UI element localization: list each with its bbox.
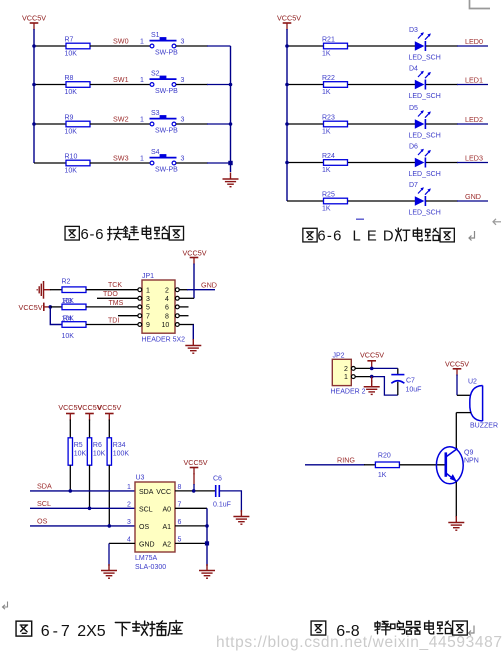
svg-text:1K: 1K	[322, 129, 331, 136]
svg-text:1K: 1K	[378, 472, 387, 479]
svg-text:SW-PB: SW-PB	[155, 49, 178, 56]
svg-text:TCK: TCK	[108, 282, 122, 289]
svg-text:R2: R2	[62, 279, 71, 286]
power port VCC5V (LEDs)	[277, 14, 301, 31]
svg-text:RING: RING	[337, 455, 355, 464]
wire R5 to SDA	[69, 465, 71, 491]
wire R23 to D5	[348, 123, 415, 125]
svg-text:10uF: 10uF	[406, 386, 422, 393]
resistor R5 10K (vertical)	[68, 438, 86, 465]
svg-text:7: 7	[146, 313, 150, 320]
ground (pin4 of U3)	[101, 564, 117, 578]
svg-text:R22: R22	[322, 75, 335, 82]
svg-text:VCC5V: VCC5V	[19, 303, 43, 312]
svg-text:HEADER 5X2: HEADER 5X2	[142, 337, 186, 344]
wire emitter to ground	[455, 482, 457, 517]
svg-text:BUZZER: BUZZER	[470, 423, 498, 430]
junction LED bus	[285, 83, 289, 87]
power port VCC5V (buzzer)	[445, 359, 469, 376]
pin 7 of JP1	[138, 313, 150, 320]
junction R5/SDA	[69, 489, 73, 493]
svg-text:LED0: LED0	[465, 37, 483, 46]
svg-text:4: 4	[127, 536, 131, 543]
wire GND pin4 to ground	[109, 542, 135, 544]
wire VCC pin8	[175, 490, 215, 492]
svg-text:U2: U2	[468, 379, 477, 386]
pin 8 of JP1	[165, 313, 179, 320]
wire pin4 to VCC bus	[179, 297, 194, 299]
svg-text:U3: U3	[136, 475, 145, 482]
wire VCC stub blue	[193, 484, 195, 491]
caption: fig 6-6 LED circuit	[303, 228, 454, 245]
wire bus to R25	[287, 200, 323, 202]
wire R34 to OS	[108, 465, 110, 526]
junction right bus	[229, 83, 233, 87]
wire D7 out	[426, 200, 458, 202]
wire VCC to buzzer top	[456, 375, 458, 396]
junction right bus bottom	[228, 161, 232, 165]
svg-text:3: 3	[181, 156, 185, 163]
svg-text:VCC5V: VCC5V	[97, 403, 121, 412]
svg-text:D5: D5	[409, 105, 418, 112]
svg-text:GND: GND	[465, 192, 481, 201]
wire RING	[305, 464, 365, 466]
svg-text:10K: 10K	[65, 89, 78, 96]
gray paragraph mark after caption 2	[469, 231, 475, 241]
svg-text:R20: R20	[378, 453, 391, 460]
junction VCC bus	[32, 122, 36, 126]
svg-text:6-6: 6-6	[81, 227, 104, 243]
svg-text:LED: LED	[353, 229, 394, 245]
capacitor C7 10uF	[391, 375, 421, 394]
wire bus to R23	[287, 123, 323, 125]
svg-text:R10: R10	[65, 153, 78, 160]
resistor R10 10K	[65, 153, 91, 174]
ground (left of R2)	[37, 281, 50, 299]
svg-text:S1: S1	[151, 32, 160, 39]
wire C7 bottom	[397, 382, 399, 395]
decorative blue dash above LED caption	[356, 218, 364, 220]
buzzer U2 body	[468, 379, 498, 430]
power port VCC5V (sideways)	[19, 303, 51, 312]
svg-text:1: 1	[127, 484, 131, 491]
svg-text:A1: A1	[162, 524, 171, 531]
svg-text:Q9: Q9	[464, 450, 473, 457]
svg-text:10K: 10K	[65, 51, 78, 58]
wire R8 to switch	[90, 84, 150, 86]
svg-text:1: 1	[140, 39, 144, 46]
junction A2	[205, 541, 209, 545]
switch S2 SW-PB	[150, 71, 179, 95]
wire A1	[175, 525, 207, 527]
wire pin8 stub	[179, 315, 188, 317]
resistor R25 1K	[322, 191, 348, 212]
ground (buttons)	[223, 173, 239, 187]
svg-text:OS: OS	[37, 517, 48, 526]
wire D5 out	[426, 123, 458, 125]
svg-text:6: 6	[165, 305, 169, 312]
wire R25 to D7	[348, 200, 415, 202]
power port VCC5V above R34	[97, 403, 121, 421]
svg-text:S2: S2	[151, 71, 160, 78]
connector JP1 HEADER 5X2 body	[142, 273, 186, 344]
caption: fig 6-6 button circuit	[65, 226, 183, 243]
junction right bus	[229, 122, 233, 126]
svg-text:SW0: SW0	[113, 37, 129, 46]
svg-text:NPN: NPN	[464, 458, 479, 465]
wire buzzer bottom to collector	[456, 412, 471, 414]
svg-text:3: 3	[127, 519, 131, 526]
wire TDO	[97, 297, 138, 299]
caption: fig 6-8 buzzer circuit	[311, 621, 467, 640]
wire pin10 to ground	[179, 324, 194, 326]
junction LED bus	[285, 122, 289, 126]
junction VCC/pin2	[370, 367, 374, 371]
svg-text:SDA: SDA	[139, 489, 154, 496]
transistor Q9 NPN	[436, 447, 478, 484]
pin 1 of JP2	[344, 374, 355, 381]
wire R10 to switch	[90, 162, 150, 164]
wire SW1 row left segment	[34, 84, 66, 86]
wire VCC node down to R4	[50, 307, 63, 325]
junction VCC bus	[32, 44, 36, 48]
svg-text:D3: D3	[409, 27, 418, 34]
wire D4 out	[426, 84, 458, 86]
wire R21 to D3	[348, 45, 415, 47]
svg-text:LED_SCH: LED_SCH	[409, 209, 441, 216]
svg-text:2: 2	[165, 287, 169, 294]
led D5 LED_SCH	[409, 105, 441, 139]
ground (A pins)	[199, 564, 215, 578]
pin 1 of JP1	[138, 287, 150, 294]
wire VCC to R5	[69, 420, 71, 439]
ground (below JP1)	[185, 339, 201, 353]
junction VCC5V node	[49, 305, 53, 309]
svg-text:TDO: TDO	[103, 291, 118, 298]
svg-text:6: 6	[178, 519, 182, 526]
svg-text:8: 8	[165, 313, 169, 320]
svg-text:LED_SCH: LED_SCH	[409, 132, 441, 139]
svg-text:JP2: JP2	[333, 352, 345, 359]
svg-text:1: 1	[140, 156, 144, 163]
svg-text:R5: R5	[74, 442, 83, 449]
svg-text:3: 3	[181, 39, 185, 46]
resistor R6 10K (vertical)	[87, 438, 105, 465]
pin 5 of JP1	[138, 305, 150, 312]
svg-text:R8: R8	[65, 75, 74, 82]
wire TMS	[86, 306, 138, 308]
svg-text:3: 3	[181, 117, 185, 124]
junction LED bus	[285, 161, 289, 165]
svg-text:3: 3	[181, 77, 185, 84]
svg-text:9: 9	[146, 322, 150, 329]
svg-text:R3: R3	[63, 298, 72, 305]
gray corner mark top right	[470, 0, 491, 9]
wire SW3 row left segment	[34, 162, 66, 164]
svg-text:R4: R4	[63, 315, 72, 322]
svg-text:SCL: SCL	[139, 507, 153, 514]
svg-text:8: 8	[178, 484, 182, 491]
pin 2 of JP1	[165, 287, 179, 294]
junction R6/SCL	[88, 507, 92, 511]
gray paragraph mark after caption 4	[469, 626, 475, 636]
wire switch S4 to right bus	[176, 162, 208, 164]
svg-text:VCC: VCC	[156, 489, 171, 496]
svg-text:LED_SCH: LED_SCH	[409, 93, 441, 100]
svg-text:R21: R21	[322, 36, 335, 43]
ground (Q9)	[448, 516, 464, 530]
wire bus to R21	[287, 45, 323, 47]
junction A1	[205, 524, 209, 528]
wire D6 out	[426, 162, 458, 164]
svg-text:https://blog.csdn.net/weixin_4: https://blog.csdn.net/weixin_44593487	[216, 634, 502, 651]
pin 3 of JP1	[138, 296, 150, 303]
svg-text:7: 7	[178, 501, 182, 508]
svg-text:3: 3	[146, 296, 150, 303]
svg-text:A0: A0	[162, 507, 171, 514]
resistor R34 100K (vertical)	[107, 438, 129, 465]
svg-text:6-6: 6-6	[317, 229, 341, 245]
wire TCK	[86, 289, 138, 291]
svg-text:1K: 1K	[322, 51, 331, 58]
junction VCC bus	[32, 83, 36, 87]
svg-text:100K: 100K	[113, 451, 130, 458]
junction VCC/C6	[192, 489, 196, 493]
resistor R3 10K	[62, 298, 86, 310]
svg-text:SW2: SW2	[113, 115, 129, 124]
wire SDA	[30, 490, 135, 492]
ic U3 LM75A body	[135, 475, 175, 571]
svg-text:SW-PB: SW-PB	[155, 88, 178, 95]
svg-text:10K: 10K	[93, 451, 106, 458]
wire R9 to switch	[90, 123, 150, 125]
wire ground to R2	[50, 289, 64, 291]
ground (JP2)	[364, 380, 380, 394]
wire R7 to switch	[90, 45, 150, 47]
wire switch S2 to right bus	[176, 84, 208, 86]
wire A2	[175, 542, 207, 544]
capacitor C6 0.1uF	[213, 476, 231, 509]
svg-text:D7: D7	[409, 182, 418, 189]
svg-text:1: 1	[140, 117, 144, 124]
wire pin7 stub	[118, 315, 138, 317]
svg-text:HEADER 2: HEADER 2	[331, 389, 366, 396]
led D3 LED_SCH	[409, 27, 441, 61]
svg-text:1: 1	[344, 374, 348, 381]
svg-text:GND: GND	[139, 542, 155, 549]
power port VCC5V (above JP1)	[183, 249, 207, 265]
svg-text:SLA-0300: SLA-0300	[135, 564, 166, 571]
switch S1 SW-PB	[150, 32, 179, 56]
wire bus to R24	[287, 162, 323, 164]
wire pin2 row	[355, 367, 372, 369]
power port VCC5V (buttons)	[22, 14, 46, 31]
wire: right bus to ground	[230, 46, 232, 163]
pin 4 of JP1	[165, 296, 179, 303]
wire: LED VCC bus	[286, 29, 288, 201]
svg-text:0.1uF: 0.1uF	[213, 502, 231, 509]
led D7 LED_SCH	[409, 182, 441, 216]
wire switch S3 to right bus	[176, 123, 208, 125]
resistor R20 1K	[375, 453, 399, 480]
svg-text:LED1: LED1	[465, 75, 483, 84]
resistor R21 1K	[322, 36, 348, 57]
svg-text:C6: C6	[213, 476, 222, 483]
svg-text:C7: C7	[406, 378, 415, 385]
svg-text:VCC5V: VCC5V	[22, 14, 46, 23]
wire VCC to R6	[89, 420, 91, 439]
svg-text:VCC5V: VCC5V	[445, 359, 469, 368]
svg-text:1: 1	[140, 77, 144, 84]
wire OS	[30, 525, 135, 527]
svg-text:2: 2	[127, 501, 131, 508]
svg-text:SDA: SDA	[37, 482, 52, 491]
svg-text:S3: S3	[151, 110, 160, 117]
svg-text:TDI: TDI	[108, 317, 119, 324]
wire switch S1 to right bus	[176, 45, 208, 47]
resistor R7 10K	[65, 36, 91, 57]
svg-text:A2: A2	[162, 542, 171, 549]
wire pin2 to GND net	[179, 289, 188, 291]
wire VCC to R34	[108, 420, 110, 439]
wire R24 to D6	[348, 162, 415, 164]
svg-text:5: 5	[146, 305, 150, 312]
resistor R9 10K	[65, 114, 91, 135]
gray wrap arrow right of LED caption	[493, 219, 501, 225]
svg-text:R9: R9	[65, 114, 74, 121]
wire C6 to ground	[219, 491, 241, 512]
led D4 LED_SCH	[409, 66, 441, 100]
svg-text:VCC5V: VCC5V	[360, 350, 384, 359]
junction VCC/pin1	[370, 375, 374, 379]
svg-text:VCC5V: VCC5V	[184, 458, 208, 467]
svg-text:1K: 1K	[322, 206, 331, 213]
wire pin6 stub	[179, 306, 188, 308]
wire R22 to D4	[348, 84, 415, 86]
power port VCC5V (U3)	[184, 458, 208, 485]
caption: fig 6-7 2X5 download socket	[16, 620, 182, 640]
svg-text:4: 4	[165, 296, 169, 303]
svg-text:R24: R24	[322, 153, 335, 160]
wire SW2 row left segment	[34, 123, 66, 125]
svg-text:10K: 10K	[62, 333, 75, 340]
resistor R22 1K	[322, 75, 348, 96]
svg-text:SW-PB: SW-PB	[155, 166, 178, 173]
pin 2 of JP2	[344, 366, 355, 373]
wire pin1 to ground	[371, 377, 373, 382]
svg-text:VCC5V: VCC5V	[277, 14, 301, 23]
wire A0-A2 bus down to ground	[206, 508, 208, 566]
svg-text:10K: 10K	[65, 129, 78, 136]
switch S4 SW-PB	[150, 149, 179, 173]
led D6 LED_SCH	[409, 144, 441, 178]
svg-text:1: 1	[146, 287, 150, 294]
resistor R8 10K	[65, 75, 91, 96]
wire down to C7	[397, 368, 399, 374]
switch S3 SW-PB	[150, 110, 179, 134]
wire SW0 row left segment	[34, 45, 66, 47]
pin 9 of JP1	[138, 322, 150, 329]
junction R34/OS	[108, 524, 112, 528]
wire TDI	[86, 324, 138, 326]
wire pin1 row	[355, 376, 373, 378]
ground (C6)	[233, 510, 249, 524]
wire bus to ground stub	[230, 163, 232, 172]
svg-text:2: 2	[344, 366, 348, 373]
svg-text:JP1: JP1	[142, 273, 154, 280]
svg-text:SW1: SW1	[113, 75, 129, 84]
svg-text:2X5: 2X5	[77, 623, 106, 640]
junction LED bus	[285, 44, 289, 48]
svg-text:R34: R34	[113, 442, 126, 449]
power port VCC5V (JP2)	[360, 350, 384, 368]
svg-text:10: 10	[162, 322, 170, 329]
svg-text:LM75A: LM75A	[135, 555, 158, 562]
svg-text:D6: D6	[409, 144, 418, 151]
resistor R24 1K	[322, 153, 348, 174]
svg-text:SCL: SCL	[37, 499, 51, 508]
connector JP2 HEADER 2 body	[331, 352, 366, 395]
svg-text:10K: 10K	[74, 451, 87, 458]
wire: left VCC bus	[33, 29, 35, 163]
svg-text:VCC5V: VCC5V	[183, 249, 207, 258]
wire bus to R22	[287, 84, 323, 86]
svg-text:LED3: LED3	[465, 153, 483, 162]
wire A0	[175, 507, 207, 509]
wire VCC5V down to pin4	[193, 264, 195, 299]
wire D3 out	[426, 45, 458, 47]
wire R6 to SCL	[89, 465, 91, 508]
resistor R23 1K	[322, 114, 348, 135]
resistor R2 10K	[62, 279, 87, 293]
wire R20 to base	[399, 464, 444, 466]
svg-text:S4: S4	[151, 149, 160, 156]
svg-text:D4: D4	[409, 66, 418, 73]
svg-text:R25: R25	[322, 191, 335, 198]
svg-text:TMS: TMS	[109, 300, 124, 307]
resistor R4 10K	[62, 315, 87, 339]
svg-text:LED_SCH: LED_SCH	[409, 171, 441, 178]
power port VCC5V above R5	[58, 403, 82, 421]
pin 6 of JP1	[165, 305, 179, 312]
gray paragraph mark top-left of caption 3	[3, 602, 8, 610]
wire VCC node to R3	[50, 306, 63, 308]
svg-text:R23: R23	[322, 114, 335, 121]
pin 10 of JP1	[162, 322, 180, 329]
svg-text:6-7: 6-7	[41, 623, 70, 640]
svg-text:1K: 1K	[322, 89, 331, 96]
svg-text:R6: R6	[93, 442, 102, 449]
svg-text:GND: GND	[201, 281, 217, 290]
svg-text:1K: 1K	[322, 167, 331, 174]
svg-text:R7: R7	[65, 36, 74, 43]
svg-text:LED_SCH: LED_SCH	[409, 54, 441, 61]
svg-text:SW3: SW3	[113, 154, 129, 163]
wire SCL	[30, 507, 135, 509]
svg-text:5: 5	[178, 536, 182, 543]
power port VCC5V above R6	[78, 403, 102, 421]
svg-text:LED2: LED2	[465, 115, 483, 124]
svg-text:SW-PB: SW-PB	[155, 127, 178, 134]
svg-text:10K: 10K	[65, 168, 78, 175]
svg-text:OS: OS	[139, 524, 149, 531]
